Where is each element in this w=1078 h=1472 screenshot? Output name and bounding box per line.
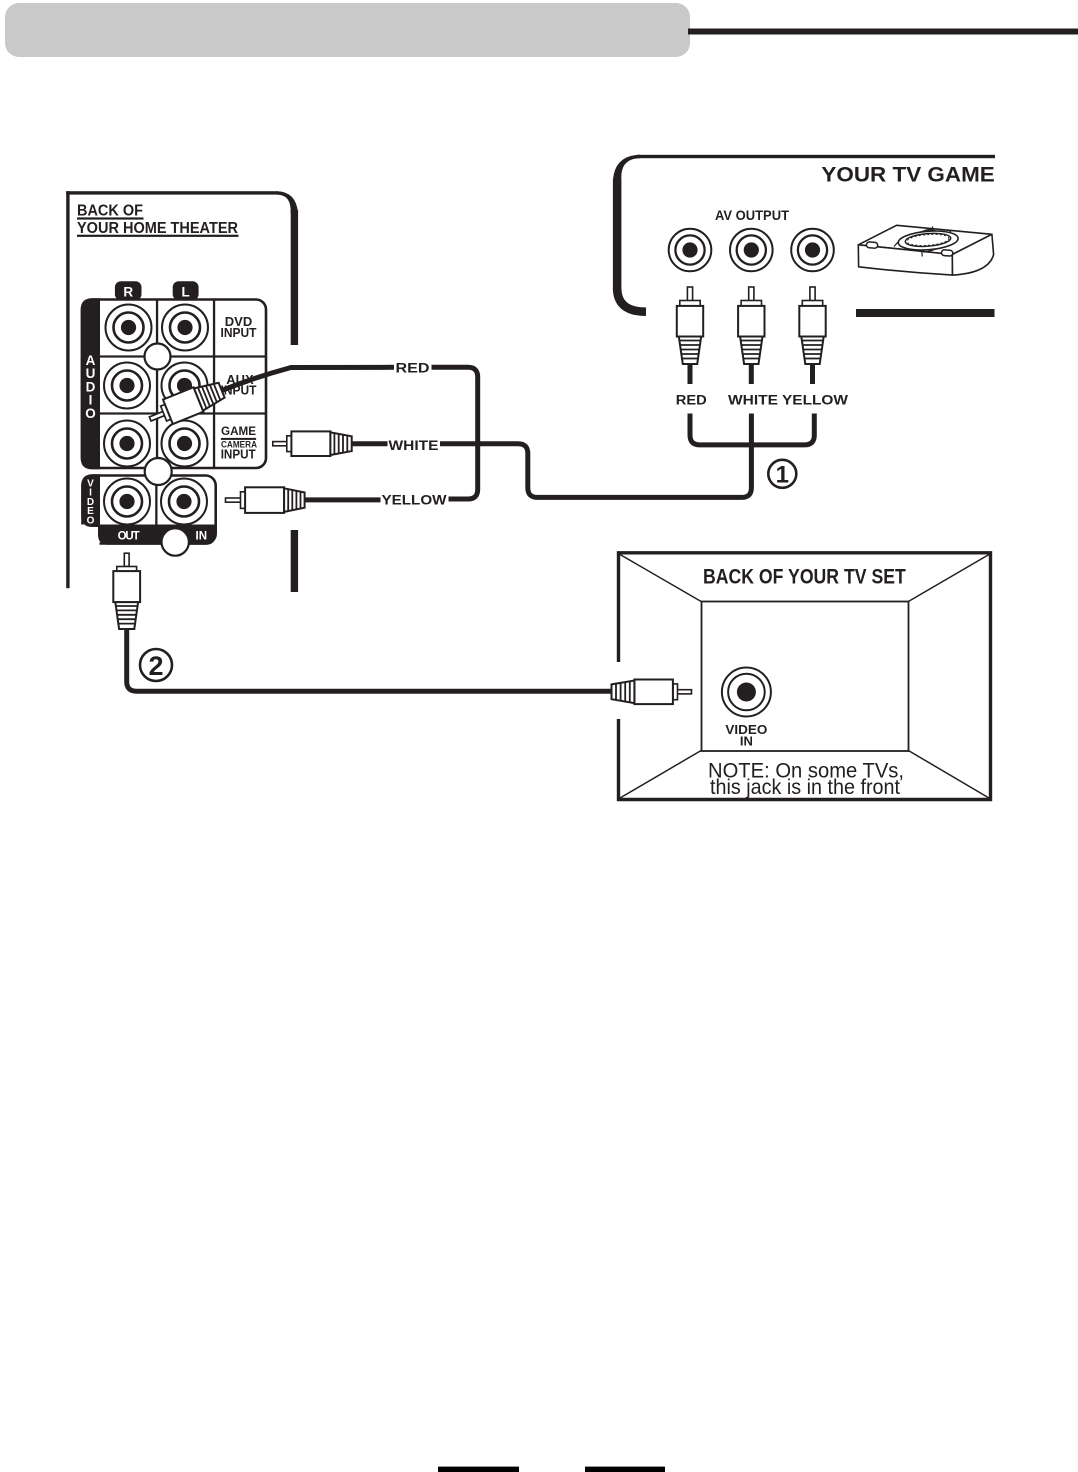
box: back of home theater (right edge upper segment) [291, 210, 298, 345]
video panel [83, 476, 216, 544]
jack audio AUX L [162, 363, 208, 409]
tv perspective diagonal top-right [908, 555, 990, 603]
jack video IN [161, 479, 207, 525]
plug: yellow RCA (points left) [226, 487, 305, 513]
svg-text:this jack is in the front: this jack is in the front [710, 776, 900, 799]
svg-text:O: O [85, 406, 96, 421]
box: back of home theater (top edge) [66, 191, 278, 194]
svg-text:YOUR TV GAME: YOUR TV GAME [821, 162, 994, 186]
tab R [115, 281, 142, 300]
jack audio DVD L [162, 305, 208, 351]
box: your tv game (top edge) [637, 155, 995, 158]
svg-text:GAME: GAME [221, 424, 256, 438]
cable: red-yellow U bundle below labels [690, 414, 814, 445]
svg-text:WHITE: WHITE [728, 393, 778, 408]
jack game red [669, 229, 712, 272]
svg-text:OUT: OUT [118, 531, 140, 543]
plug: video RCA into TV (points right) [612, 680, 692, 705]
video bottom bar OUT/IN [98, 525, 216, 545]
svg-text:O: O [87, 515, 95, 526]
bottom crop mark left [438, 1467, 519, 1472]
jack audio DVD R [106, 305, 152, 351]
cable: red from plug to RED label [221, 367, 394, 391]
svg-text:WHITE: WHITE [389, 438, 439, 453]
jack audio AUX R [104, 363, 150, 409]
tab L [173, 281, 199, 300]
tv inner panel rect [702, 602, 909, 752]
jack audio GAME L [162, 421, 208, 467]
svg-text:R: R [123, 285, 133, 300]
plug: red RCA inserted in AUX L (angled) [145, 378, 226, 431]
audio grid vline 2 [213, 300, 215, 469]
svg-text:INPUT: INPUT [221, 325, 257, 340]
cable: video out down and right to TV [127, 628, 611, 691]
bottom crop mark right [585, 1467, 665, 1472]
junction circle upper [145, 344, 171, 370]
plug: game yellow (points up) [799, 287, 825, 384]
jack game white [730, 229, 773, 272]
tv perspective diagonal top-left [620, 555, 702, 603]
audio grid hline 1 [100, 355, 266, 357]
box: your tv game (top-left corner) [613, 155, 640, 180]
jack audio GAME R [104, 421, 150, 467]
circled 1 [768, 460, 796, 488]
header gray bar [5, 3, 690, 57]
circled 2 [140, 649, 172, 681]
svg-text:BACK OF: BACK OF [77, 203, 143, 220]
tv perspective diagonal bottom-right [908, 750, 990, 798]
box: back of your tv set (outer, with gap on left for plug) [619, 553, 991, 800]
svg-text:2: 2 [148, 651, 163, 681]
svg-text:YELLOW: YELLOW [382, 492, 447, 507]
cable: white from plug to WHITE label [351, 441, 388, 446]
box: your tv game (thick left bracket) [613, 179, 622, 290]
tv perspective diagonal bottom-left [620, 750, 702, 798]
svg-text:1: 1 [776, 462, 789, 489]
box: back of home theater (left edge) [66, 191, 69, 588]
svg-text:INPUT: INPUT [221, 447, 256, 462]
game console icon [858, 225, 993, 275]
junction circle video bar [162, 528, 189, 555]
box: back of home theater (right edge lower segment) [291, 530, 298, 592]
svg-text:BACK OF YOUR TV SET: BACK OF YOUR TV SET [703, 565, 906, 589]
box: back of home theater (top-right corner) [277, 191, 298, 213]
audio grid vline 1 [156, 300, 158, 469]
junction circle between audio and video panels [145, 458, 172, 485]
svg-text:L: L [181, 285, 189, 300]
jack game yellow [791, 229, 834, 272]
cable: yellow from plug to label [304, 497, 381, 502]
svg-text:RED: RED [396, 360, 430, 375]
video panel black strip [81, 474, 100, 527]
jack video in (tv) [722, 668, 771, 717]
audio panel black strip [81, 298, 100, 469]
jack video OUT [104, 479, 150, 525]
plug: video out RCA (points up) [113, 553, 140, 629]
svg-text:IN: IN [196, 531, 208, 543]
plug: game red (points up) [677, 287, 703, 384]
svg-text:IN: IN [740, 733, 753, 748]
audio panel [82, 300, 266, 469]
svg-text:YELLOW: YELLOW [782, 393, 848, 408]
svg-text:RED: RED [676, 393, 707, 408]
video grid vline [155, 476, 157, 526]
plug: game white (points up) [738, 287, 764, 384]
svg-text:AV OUTPUT: AV OUTPUT [715, 208, 790, 223]
box: your tv game (bottom bar) [856, 309, 995, 317]
header rule line [688, 29, 1078, 35]
cable: red right segment with corner down to yellow line [432, 367, 478, 499]
svg-text:YOUR HOME THEATER: YOUR HOME THEATER [77, 220, 238, 237]
audio grid hline 2 [100, 412, 266, 414]
cable: white right segment down, across, and up to game plugs [440, 414, 751, 498]
plug: white RCA (points left) [273, 431, 352, 456]
